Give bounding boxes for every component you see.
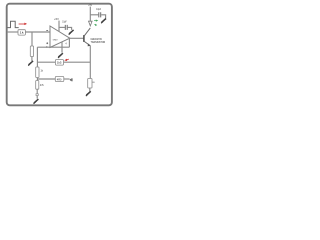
svg-text:TRANSISTOR: TRANSISTOR [91, 40, 106, 44]
svg-text:10µF: 10µF [62, 22, 67, 24]
svg-text:+5V: +5V [54, 18, 59, 21]
svg-text:10µF: 10µF [96, 9, 101, 11]
svg-text:OPA657: OPA657 [53, 38, 58, 41]
svg-text:+5V: +5V [88, 4, 92, 7]
svg-text:1k5: 1k5 [57, 61, 62, 65]
svg-text:4R0: 4R0 [57, 77, 62, 81]
